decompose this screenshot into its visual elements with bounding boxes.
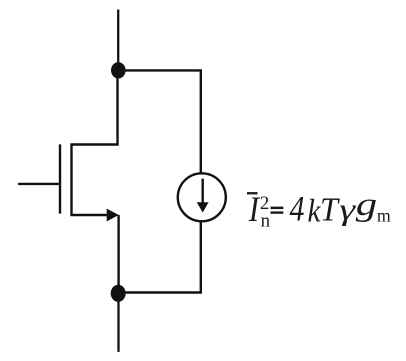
source lead <box>71 214 111 216</box>
wire drain top supply lead <box>117 10 119 65</box>
node top junction <box>111 62 126 78</box>
label equals sign lower bar <box>271 211 284 213</box>
current source arrowhead <box>197 202 209 212</box>
gate lead <box>18 183 61 185</box>
wire top junction to current source top <box>118 70 201 173</box>
svg-text:4: 4 <box>290 190 305 229</box>
wire source down to bottom junction <box>117 215 119 288</box>
current source arrow shaft <box>201 179 203 204</box>
wire bottom lead <box>117 299 119 352</box>
wire top junction down to transistor drain <box>72 70 118 145</box>
svg-text:n: n <box>261 211 271 232</box>
svg-text:I: I <box>248 190 261 230</box>
transistor M1 (NMOS) <box>18 143 119 221</box>
svg-text:T: T <box>320 190 340 228</box>
node bottom junction <box>111 285 126 302</box>
current source In (noise source) <box>178 173 226 221</box>
label equals sign upper bar <box>271 207 284 210</box>
svg-text:γ: γ <box>339 192 356 227</box>
gate bar <box>59 144 61 213</box>
label overbar on I <box>247 192 258 194</box>
channel bar <box>70 143 72 215</box>
wire bottom junction to current source bottom <box>118 221 201 293</box>
svg-text:m: m <box>377 206 391 226</box>
source arrowhead <box>107 209 119 222</box>
svg-text:g: g <box>356 187 377 223</box>
